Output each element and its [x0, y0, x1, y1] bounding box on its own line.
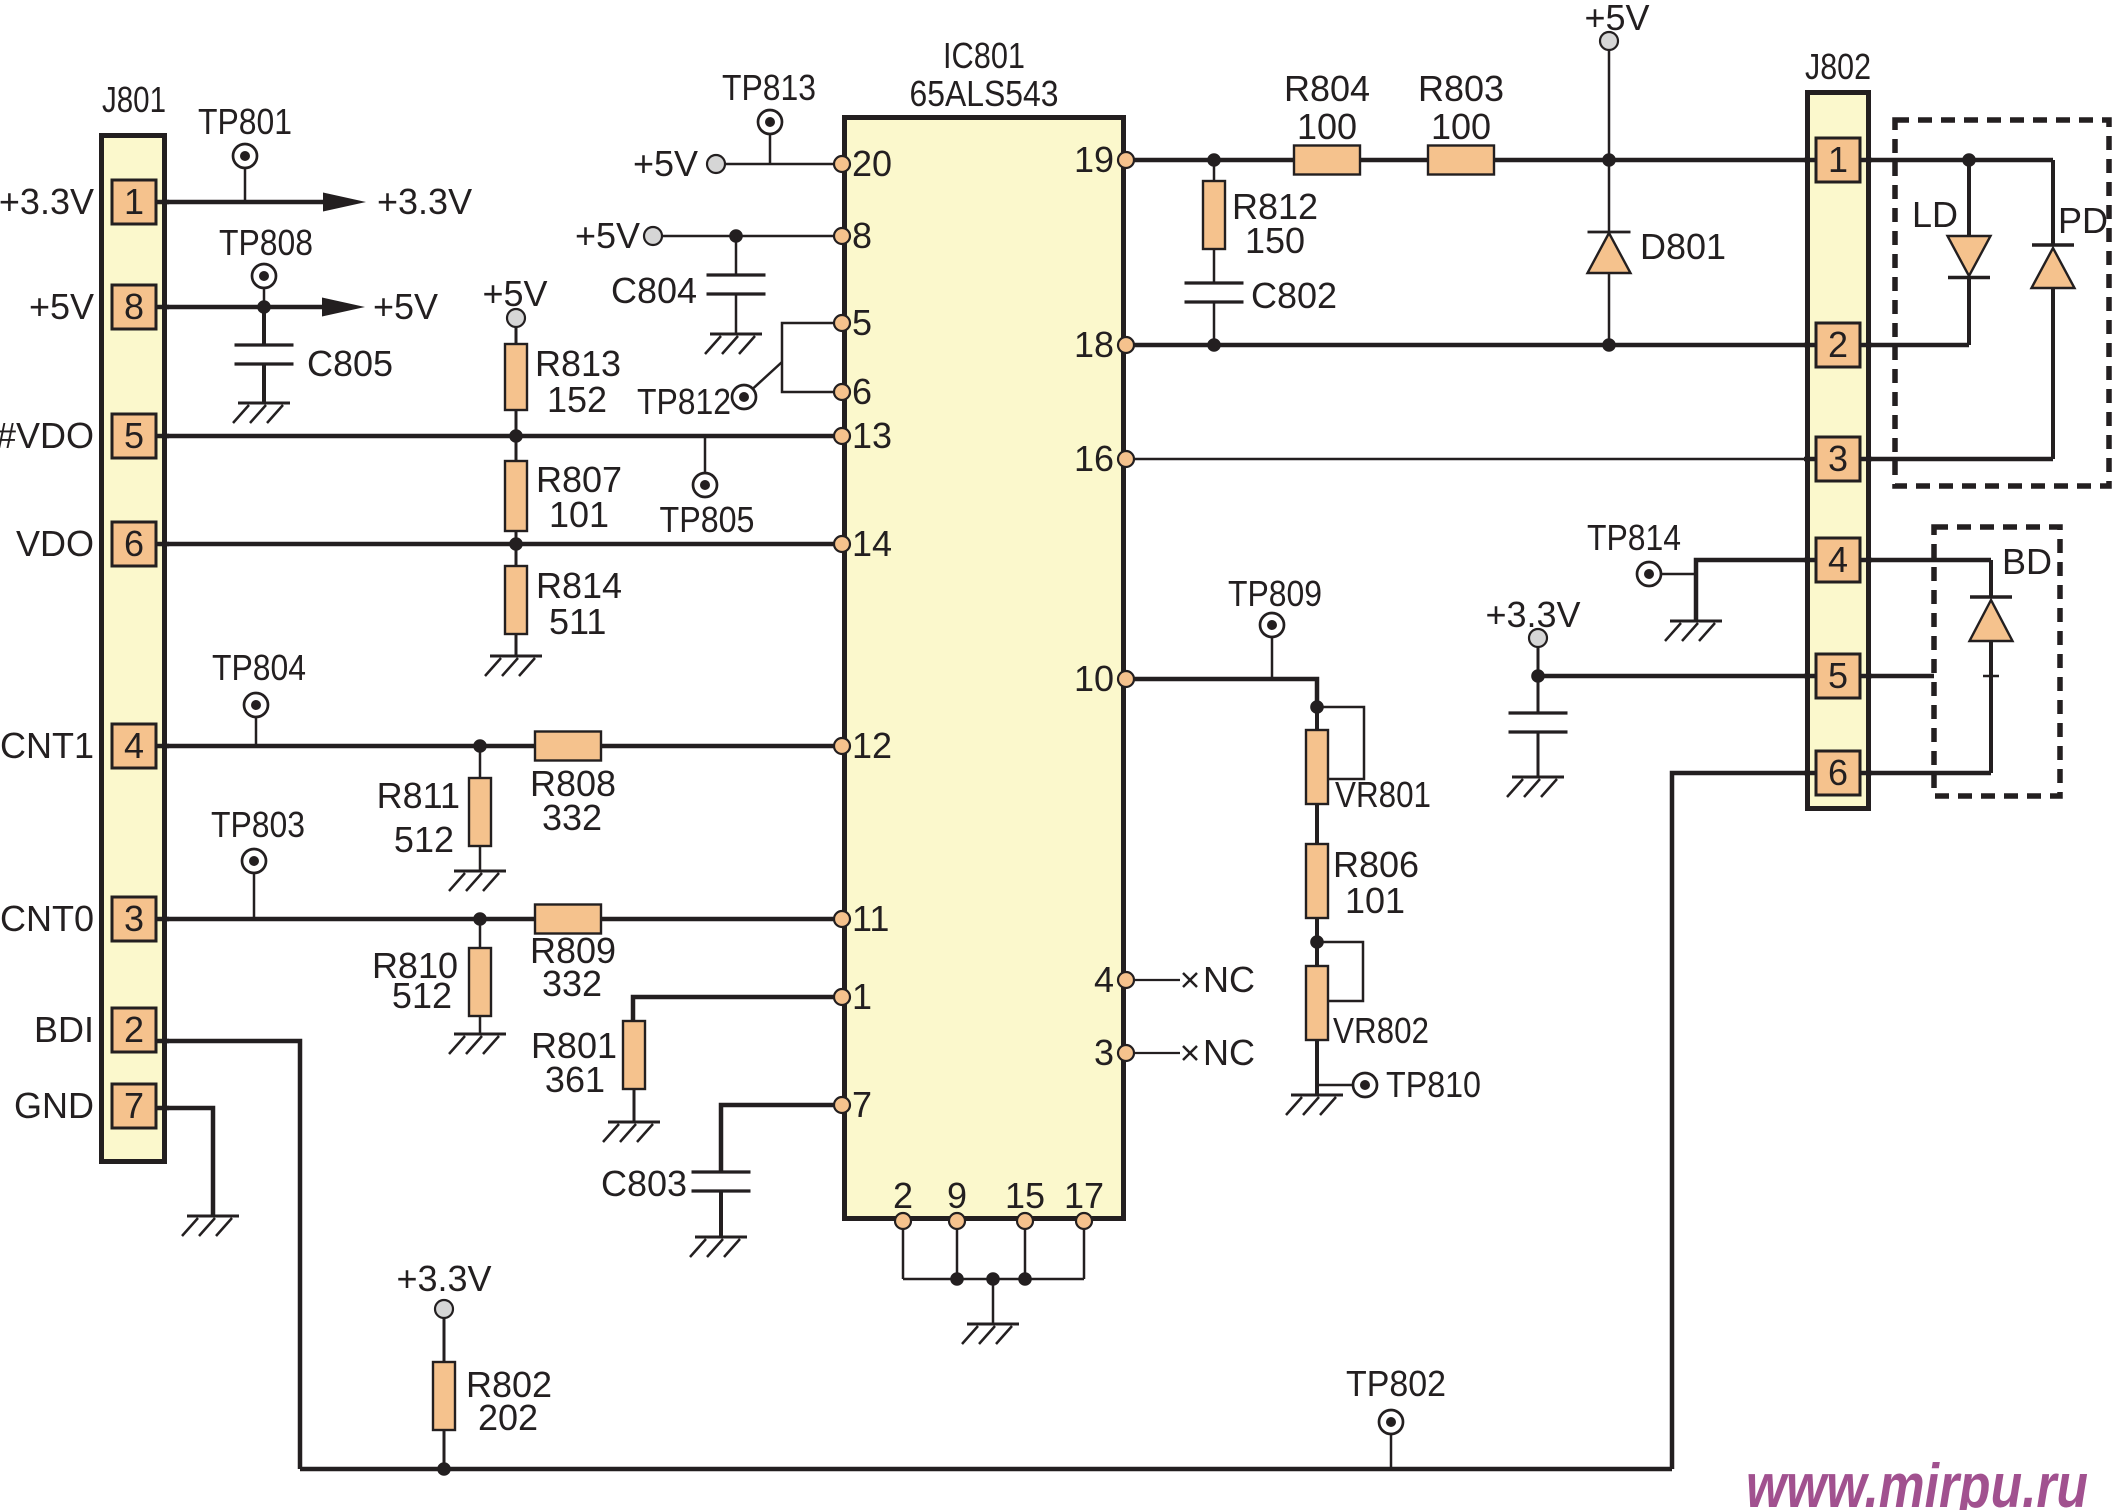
- svg-text:J802: J802: [1805, 46, 1871, 87]
- svg-text:202: 202: [478, 1397, 538, 1438]
- svg-text:4: 4: [1828, 539, 1848, 580]
- svg-text:R814: R814: [536, 565, 622, 606]
- svg-text:TP812: TP812: [637, 381, 731, 422]
- svg-text:512: 512: [394, 819, 454, 860]
- svg-text:19: 19: [1074, 139, 1114, 180]
- svg-text:11: 11: [852, 898, 889, 939]
- svg-text:511: 511: [549, 601, 606, 642]
- svg-text:R813: R813: [535, 343, 621, 384]
- svg-text:13: 13: [852, 415, 892, 456]
- svg-text:R804: R804: [1284, 68, 1370, 109]
- svg-text:65ALS543: 65ALS543: [910, 73, 1059, 114]
- svg-text:VDO: VDO: [16, 523, 94, 564]
- svg-text:GND: GND: [14, 1085, 94, 1126]
- svg-text:12: 12: [852, 725, 892, 766]
- svg-text:NC: NC: [1203, 1032, 1255, 1073]
- svg-text:16: 16: [1074, 438, 1114, 479]
- svg-text:2: 2: [893, 1175, 913, 1216]
- svg-text:#VDO: #VDO: [0, 415, 94, 456]
- svg-text:+5V: +5V: [29, 286, 94, 327]
- svg-text:TP809: TP809: [1228, 573, 1322, 614]
- svg-text:TP804: TP804: [212, 647, 306, 688]
- svg-text:9: 9: [947, 1175, 967, 1216]
- svg-text:332: 332: [542, 963, 602, 1004]
- svg-text:5: 5: [124, 415, 144, 456]
- svg-text:R803: R803: [1418, 68, 1504, 109]
- svg-text:6: 6: [1828, 752, 1848, 793]
- svg-text:TP801: TP801: [198, 101, 292, 142]
- svg-text:C804: C804: [611, 270, 697, 311]
- svg-text:D801: D801: [1640, 226, 1726, 267]
- svg-text:101: 101: [1345, 880, 1405, 921]
- svg-text:4: 4: [1094, 959, 1114, 1000]
- svg-text:2: 2: [124, 1009, 144, 1050]
- svg-text:BD: BD: [2002, 541, 2052, 582]
- svg-text:332: 332: [542, 797, 602, 838]
- svg-text:C803: C803: [601, 1163, 687, 1204]
- svg-text:6: 6: [124, 523, 144, 564]
- svg-text:101: 101: [549, 494, 609, 535]
- svg-text:3: 3: [1828, 438, 1848, 479]
- svg-text:100: 100: [1297, 106, 1357, 147]
- svg-text:R811: R811: [377, 775, 460, 816]
- svg-text:361: 361: [545, 1059, 605, 1100]
- svg-text:BDI: BDI: [34, 1009, 94, 1050]
- svg-text:15: 15: [1005, 1175, 1045, 1216]
- svg-text:2: 2: [1828, 324, 1848, 365]
- svg-text:J801: J801: [102, 79, 166, 120]
- svg-text:7: 7: [124, 1085, 144, 1126]
- svg-text:3: 3: [1094, 1032, 1114, 1073]
- svg-text:NC: NC: [1203, 959, 1255, 1000]
- svg-text:+3.3V: +3.3V: [396, 1258, 491, 1299]
- svg-text:VR801: VR801: [1335, 774, 1431, 815]
- svg-text:1: 1: [852, 976, 872, 1017]
- svg-text:3: 3: [124, 898, 144, 939]
- svg-text:512: 512: [392, 975, 452, 1016]
- svg-text:18: 18: [1074, 324, 1114, 365]
- svg-text:VR802: VR802: [1333, 1010, 1429, 1051]
- svg-text:+5V: +5V: [482, 273, 547, 314]
- svg-text:TP814: TP814: [1587, 517, 1681, 558]
- svg-text:4: 4: [124, 725, 144, 766]
- svg-text:+3.3V: +3.3V: [1485, 594, 1580, 635]
- svg-text:TP813: TP813: [722, 67, 816, 108]
- svg-text:+5V: +5V: [633, 143, 698, 184]
- svg-text:7: 7: [852, 1084, 872, 1125]
- svg-text:TP805: TP805: [660, 499, 755, 540]
- svg-text:TP810: TP810: [1386, 1064, 1481, 1105]
- svg-text:www.mirpu.ru: www.mirpu.ru: [1746, 1452, 2088, 1510]
- svg-text:C805: C805: [307, 343, 393, 384]
- svg-text:TP803: TP803: [211, 804, 305, 845]
- svg-text:+5V: +5V: [373, 286, 438, 327]
- svg-text:150: 150: [1245, 220, 1305, 261]
- svg-text:CNT1: CNT1: [0, 725, 94, 766]
- svg-text:C802: C802: [1251, 275, 1337, 316]
- svg-text:+3.3V: +3.3V: [0, 181, 94, 222]
- svg-text:PD: PD: [2058, 200, 2108, 241]
- svg-text:R806: R806: [1333, 844, 1419, 885]
- svg-text:TP802: TP802: [1346, 1363, 1446, 1404]
- svg-text:5: 5: [852, 302, 872, 343]
- svg-text:152: 152: [547, 379, 607, 420]
- svg-text:5: 5: [1828, 655, 1848, 696]
- svg-text:17: 17: [1064, 1175, 1104, 1216]
- svg-text:+3.3V: +3.3V: [377, 181, 472, 222]
- svg-text:LD: LD: [1912, 194, 1958, 235]
- svg-text:8: 8: [124, 286, 144, 327]
- svg-text:TP808: TP808: [219, 222, 313, 263]
- svg-text:1: 1: [1828, 139, 1848, 180]
- svg-text:100: 100: [1431, 106, 1491, 147]
- svg-text:IC801: IC801: [943, 35, 1025, 76]
- svg-text:1: 1: [124, 181, 144, 222]
- svg-text:14: 14: [852, 523, 892, 564]
- svg-text:+5V: +5V: [1584, 0, 1649, 38]
- svg-text:20: 20: [852, 143, 892, 184]
- svg-text:CNT0: CNT0: [0, 898, 94, 939]
- svg-text:6: 6: [852, 371, 872, 412]
- svg-text:8: 8: [852, 215, 872, 256]
- svg-text:10: 10: [1074, 658, 1114, 699]
- svg-text:+5V: +5V: [575, 215, 640, 256]
